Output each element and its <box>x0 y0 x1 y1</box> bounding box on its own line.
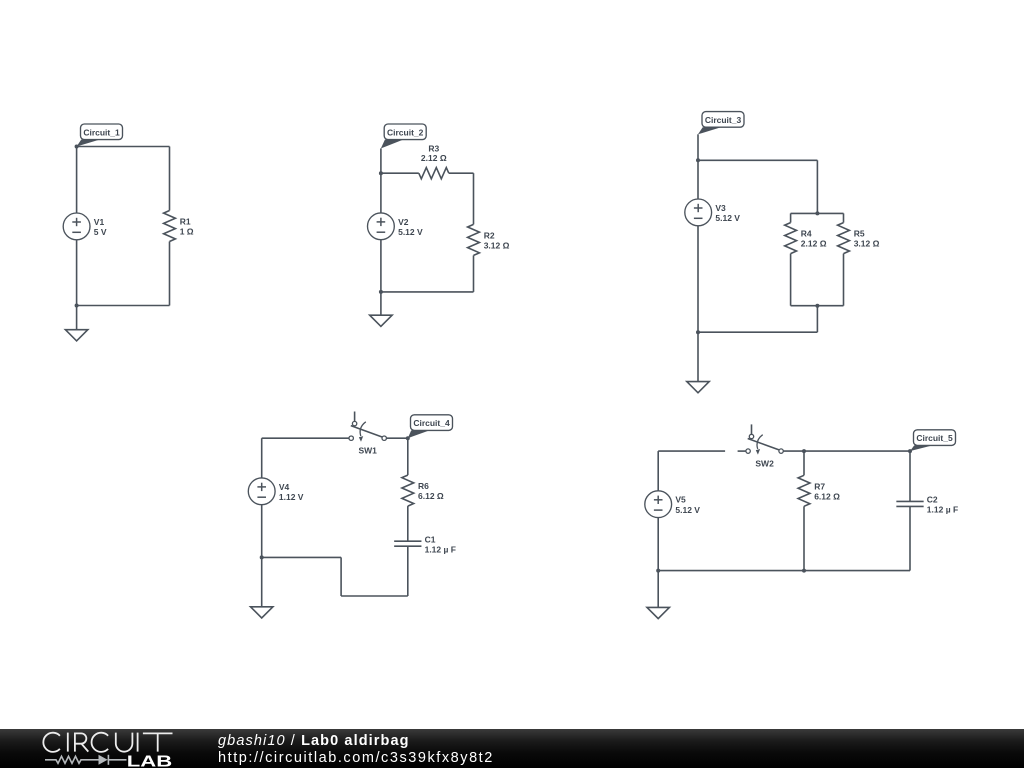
wire C4 left upper <box>261 438 263 478</box>
node C3 parallel top <box>815 211 819 215</box>
voltage source V2 <box>368 213 424 240</box>
wire C5 top left (gap before switch) <box>658 450 725 452</box>
wire C2 bottom <box>381 291 474 293</box>
resistor R3 <box>419 144 449 179</box>
svg-text:Circuit_1: Circuit_1 <box>83 127 120 137</box>
resistor R7 <box>798 475 840 506</box>
node label Circuit_3 <box>698 112 744 135</box>
svg-text:R7: R7 <box>814 481 825 491</box>
footer bar <box>0 729 1024 768</box>
wire C4 R6 to C1 lead <box>407 506 409 541</box>
svg-text:1 Ω: 1 Ω <box>180 227 194 237</box>
voltage source V4 <box>248 478 304 505</box>
wire C3 R4 upper lead <box>790 213 792 222</box>
resistor R6 <box>402 475 444 506</box>
wire C2 right upper <box>473 173 475 224</box>
logo resistor+diode line <box>45 755 127 765</box>
svg-text:5 V: 5 V <box>94 227 107 237</box>
svg-text:3.12 Ω: 3.12 Ω <box>854 239 880 249</box>
node C5 bottom junction <box>656 569 660 573</box>
svg-text:R4: R4 <box>801 229 812 239</box>
node C3 top junction <box>696 158 700 162</box>
svg-text:2.12 Ω: 2.12 Ω <box>801 239 827 249</box>
wire C2 left lower <box>380 240 382 292</box>
svg-text:V1: V1 <box>94 217 105 227</box>
svg-text:V4: V4 <box>279 482 290 492</box>
wire C3 R4 lower lead <box>790 254 792 306</box>
node C1 bottom junction <box>75 304 79 308</box>
wire C4 right upper <box>407 438 409 475</box>
wire C1 right upper <box>169 147 171 211</box>
svg-text:Circuit_2: Circuit_2 <box>387 127 424 137</box>
switch SW2 <box>746 424 783 468</box>
svg-text:1.12 V: 1.12 V <box>279 492 304 502</box>
footer title line <box>218 733 410 749</box>
node C4 bottom junction <box>260 555 264 559</box>
svg-text:5.12 V: 5.12 V <box>398 227 423 237</box>
ground C1 <box>65 330 87 341</box>
svg-text:1.12 µ F: 1.12 µ F <box>927 505 958 515</box>
svg-text:SW2: SW2 <box>755 458 774 468</box>
wire C2 top stub <box>380 148 382 173</box>
wire C3 bottom <box>698 331 817 333</box>
wire C5 left lower <box>657 518 659 571</box>
wire C4 top right <box>386 437 407 439</box>
wire C3 parallel top bar <box>791 212 844 214</box>
svg-text:R2: R2 <box>484 230 495 240</box>
wire C4 ground stem <box>261 557 263 606</box>
node label Circuit_5 <box>910 430 956 451</box>
wire C3 ground stem <box>697 332 699 381</box>
capacitor C1 <box>394 534 456 554</box>
node Circuit_1 <box>75 145 79 149</box>
wire C4 bottom riser <box>340 557 342 596</box>
wire C5 switch to R7 <box>783 450 804 452</box>
wire C1 left lower <box>76 240 78 306</box>
wire C4 top left <box>262 437 349 439</box>
wire C2 left upper <box>380 173 382 213</box>
wire C1 bottom <box>77 305 170 307</box>
svg-text:5.12 V: 5.12 V <box>675 505 700 515</box>
svg-text:V2: V2 <box>398 217 409 227</box>
wire C3 left lower <box>697 226 699 332</box>
wire C1 top <box>77 146 170 148</box>
wire C4 bottom left <box>262 556 341 558</box>
node label Circuit_1 <box>77 124 123 147</box>
wire C2 top left <box>381 172 419 174</box>
node Circuit_4 <box>406 436 410 440</box>
node C5 R7 top <box>802 449 806 453</box>
wire C2 ground stem <box>380 292 382 315</box>
svg-text:1.12 µ F: 1.12 µ F <box>425 545 456 555</box>
node C3 bottom junction <box>696 330 700 334</box>
ground C4 <box>251 607 273 618</box>
wire C3 parallel bottom bar <box>791 305 844 307</box>
svg-text:2.12 Ω: 2.12 Ω <box>421 153 447 163</box>
wire C5 left upper <box>657 451 659 491</box>
resistor R1 <box>164 211 194 242</box>
wire C5 R7 upper lead <box>803 451 805 475</box>
node label Circuit_2 <box>381 124 426 148</box>
footer url line <box>218 750 494 766</box>
wire C5 R7 lower lead <box>803 506 805 570</box>
voltage source V3 <box>685 199 741 226</box>
wire C3 left upper <box>697 160 699 199</box>
wire C5 switch left lead <box>738 450 746 452</box>
wire C3 top stub <box>697 134 699 160</box>
resistor R5 <box>838 223 880 254</box>
ground C5 <box>647 607 669 618</box>
wire C4 below C1 <box>407 546 409 596</box>
svg-text:R1: R1 <box>180 217 191 227</box>
wire C5 top right <box>804 450 910 452</box>
wire C3 top <box>698 159 817 161</box>
svg-text:Circuit_5: Circuit_5 <box>916 433 953 443</box>
resistor R2 <box>468 224 510 255</box>
node C2 bottom junction <box>379 290 383 294</box>
resistor R4 <box>785 223 827 254</box>
switch SW1 <box>349 412 386 456</box>
svg-text:6.12 Ω: 6.12 Ω <box>814 491 840 501</box>
svg-text:3.12 Ω: 3.12 Ω <box>484 241 510 251</box>
wire C3 right drop <box>816 160 818 213</box>
svg-text:C2: C2 <box>927 495 938 505</box>
CircuitLab logo <box>0 729 200 768</box>
wire C1 right lower <box>169 242 171 306</box>
wire C2 top right <box>449 172 474 174</box>
wire C1 left upper <box>76 147 78 214</box>
wire C4 left lower <box>261 505 263 558</box>
node Circuit_5 <box>908 449 912 453</box>
svg-text:LAB: LAB <box>127 753 172 768</box>
voltage source V5 <box>645 491 701 518</box>
wire C4 bottom right <box>341 595 408 597</box>
svg-text:SW1: SW1 <box>358 446 377 456</box>
wire C3 right riser <box>816 306 818 333</box>
wire C5 ground stem <box>657 571 659 608</box>
node C3 parallel bottom <box>815 304 819 308</box>
wire C1 ground stem <box>76 306 78 330</box>
svg-text:V5: V5 <box>675 495 686 505</box>
svg-text:R5: R5 <box>854 229 865 239</box>
svg-text:V3: V3 <box>715 203 726 213</box>
svg-text:5.12 V: 5.12 V <box>715 213 740 223</box>
wire C5 C2 upper lead <box>909 451 911 501</box>
node label Circuit_4 <box>408 415 453 438</box>
svg-text:6.12 Ω: 6.12 Ω <box>418 491 444 501</box>
svg-text:R6: R6 <box>418 481 429 491</box>
node C2 top junction <box>379 171 383 175</box>
wire C5 C2 lower lead <box>909 507 911 571</box>
svg-text:C1: C1 <box>425 534 436 544</box>
capacitor C2 <box>896 495 958 515</box>
node C5 R7 bottom <box>802 569 806 573</box>
wire C3 R5 lower lead <box>843 254 845 306</box>
wire C2 right lower <box>473 255 475 292</box>
wire C3 R5 upper lead <box>843 213 845 222</box>
ground C3 <box>687 382 709 393</box>
svg-text:Circuit_3: Circuit_3 <box>705 115 742 125</box>
voltage source V1 <box>63 213 107 240</box>
svg-text:Circuit_4: Circuit_4 <box>413 418 450 428</box>
svg-text:R3: R3 <box>428 144 439 154</box>
wire C5 bottom <box>658 570 910 572</box>
ground C2 <box>370 315 392 326</box>
logo word CIRCUIT <box>43 733 172 752</box>
